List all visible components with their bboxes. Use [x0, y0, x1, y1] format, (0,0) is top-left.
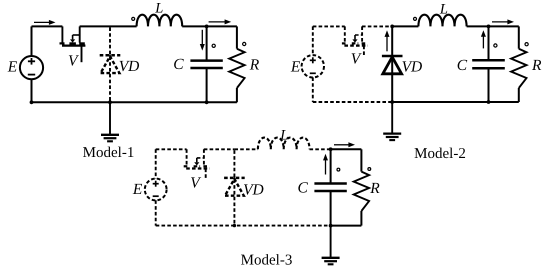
- svg-text:V: V: [351, 51, 362, 68]
- svg-text:Model-1: Model-1: [83, 145, 135, 161]
- svg-text:VD: VD: [119, 58, 140, 75]
- svg-text:V: V: [68, 53, 79, 70]
- svg-text:R: R: [369, 180, 380, 197]
- svg-text:V: V: [190, 174, 201, 191]
- svg-text:VD: VD: [402, 59, 423, 76]
- svg-text:R: R: [531, 57, 542, 74]
- svg-text:R: R: [249, 57, 260, 74]
- svg-text:C: C: [457, 57, 468, 74]
- svg-text:E: E: [132, 181, 143, 198]
- svg-text:C: C: [173, 56, 184, 73]
- svg-text:VD: VD: [243, 182, 264, 199]
- svg-text:Model-2: Model-2: [414, 146, 466, 162]
- svg-text:E: E: [290, 58, 301, 75]
- svg-text:Model-3: Model-3: [241, 253, 293, 269]
- svg-text:E: E: [7, 58, 18, 75]
- svg-text:L: L: [154, 1, 163, 17]
- svg-text:L: L: [439, 1, 448, 17]
- svg-text:L: L: [279, 128, 288, 144]
- svg-text:C: C: [298, 180, 309, 197]
